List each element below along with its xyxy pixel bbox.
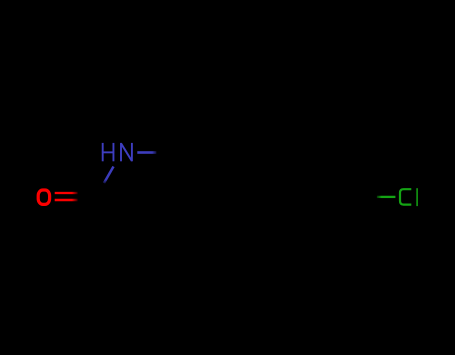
atom O (carbonyl oxygen) bbox=[38, 190, 49, 204]
atom label l of Cl bbox=[416, 188, 418, 206]
atom label H of HN bbox=[102, 143, 114, 161]
bond CH2 to Cl (Cl half) bbox=[377, 196, 396, 198]
bond C=O double bond upper line bbox=[55, 192, 78, 194]
atom label C of Cl bbox=[400, 189, 411, 204]
bond C=O double bond lower line bbox=[55, 199, 78, 202]
bond N to ring carbon (N half) bbox=[137, 151, 156, 154]
bond N to carbonyl carbon (amide bond, N half) bbox=[104, 167, 114, 184]
atom label N of HN bbox=[121, 143, 132, 161]
